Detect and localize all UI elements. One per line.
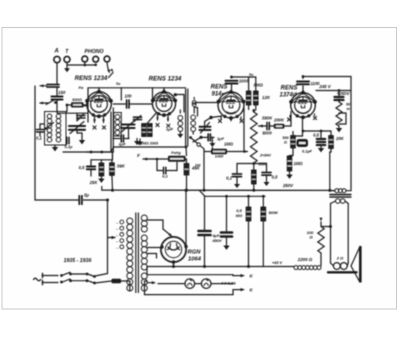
tube1 plate wires [111,108,113,152]
svg-text:5μ: 5μ [84,193,89,198]
svg-text:0,1μ: 0,1μ [65,144,74,149]
IF damping coil [192,98,196,114]
svg-text:36K: 36K [117,164,126,169]
resistor 25K [89,160,105,185]
label 2200 [297,257,313,262]
svg-text:+65 V: +65 V [272,261,282,265]
capacitor 5u bus [79,193,107,205]
cathode resistor 1/2Mn [142,124,147,137]
padding capacitor 1uF [113,135,129,147]
capacitor 0,1 det [226,164,254,189]
dial lamp 2 [201,279,211,289]
label +250V [337,91,351,96]
resistor 12K a [246,91,251,105]
oscillator coil box [114,113,122,137]
antenna terminal A [53,49,60,63]
wire tube3 right [243,108,245,152]
bus corner down [107,200,109,274]
svg-text:—: — [115,222,119,225]
tube4 top cap [297,77,320,93]
svg-text:A: A [53,49,58,55]
svg-text:100: 100 [125,94,133,99]
svg-text:450V: 450V [211,238,222,243]
label 1uF tube2 [166,127,174,132]
choke 2200 [294,253,321,270]
speaker wire right [347,204,349,264]
resistor 50K det [252,170,257,190]
volume box to pot wire [213,151,248,153]
capacitor 0,1uF block [297,139,313,154]
svg-text:1μF: 1μF [166,127,174,132]
svg-text:0,1: 0,1 [226,176,232,181]
svg-text:500Ω: 500Ω [72,97,83,102]
earth terminal T [64,49,70,63]
resistor 12K b [254,91,259,105]
ground IF [177,132,183,139]
IF primary coil [178,110,183,132]
tuning capacitor [122,121,135,139]
svg-text:1μF: 1μF [217,136,225,141]
label 100 [307,230,314,240]
svg-text:20K: 20K [335,136,345,141]
resistor 1Mn out [286,156,303,179]
output transformer secondary [331,199,349,204]
mains wire bottom [42,279,112,284]
bottom bus left [35,199,79,201]
ground tube2 cath [137,139,143,146]
label RGN 1064 [188,250,202,263]
output transformer primary [330,189,351,193]
pot wiper lower [244,150,248,153]
label RENS 1234 first [75,68,114,82]
tube4 cathode wire [303,117,332,136]
tube3 heater pins [218,117,243,123]
label 250V [282,183,294,188]
svg-text:2 Ω: 2 Ω [336,256,344,261]
wire HT to rectifier [147,220,172,237]
cathode resistor 200 [148,124,153,137]
svg-text:2200 Ω: 2200 Ω [297,257,313,262]
wire from A [56,63,58,84]
svg-text:RENS 1234: RENS 1234 [149,76,182,83]
wire grid rail tube3 [232,77,256,91]
ground below antenna coil [52,145,58,151]
tube4 heater pins [287,114,316,121]
label 2=84V [259,154,271,158]
heater tap K1 [233,274,254,279]
svg-text:RGN: RGN [188,250,202,256]
resistor 500 tube4 [282,132,302,149]
potentiometer 350K [251,111,274,164]
wire 12K to pot [249,105,256,112]
label RENS 914 [211,85,228,98]
switch phono 2 [193,136,208,142]
tube2 grid stub [162,88,165,93]
wire box left [204,149,211,190]
svg-text:—: — [115,241,119,244]
tube1 grid stub [98,88,100,92]
field coil 100 [318,218,332,253]
coupling capacitor 0,1 [37,124,45,136]
IF can core [186,89,188,146]
svg-text:—: — [115,247,119,250]
tube3 grid cap [226,73,254,91]
labels 1/2Mn 200 [137,142,158,146]
wire under tube1 box [58,112,88,114]
wire coil to grid resistor [67,104,88,111]
capacitor 150 [52,97,63,114]
svg-text:0,1: 0,1 [36,136,42,141]
label 12K [262,95,271,100]
label 60K [259,162,268,167]
svg-text:0,5: 0,5 [79,165,85,170]
capacitor 4uF a [199,196,211,266]
svg-text:0,1: 0,1 [162,174,168,179]
heater tap K2 [233,288,254,295]
sub bus [205,195,265,197]
label 1935-1936 [64,258,92,264]
dial lamp box [145,267,234,295]
bus junction [185,189,188,247]
band switch in coil box [45,123,54,130]
svg-text:500: 500 [282,136,289,140]
dial lamp 1 [185,279,195,289]
tube2 heater pins [156,115,170,128]
mains symbol [34,278,41,281]
tube1 heater pins [93,117,106,130]
svg-text:1000: 1000 [239,79,249,84]
svg-text:RENS 1234: RENS 1234 [75,75,108,82]
right rail [350,77,352,191]
svg-text:500K: 500K [269,210,280,215]
tube V5 RGN1064 [160,237,187,264]
B+ bus [102,187,330,197]
resistor 200K [273,118,285,129]
tube V4 RENS1374d [289,91,317,119]
svg-text:F: F [137,153,140,158]
svg-text:—: — [115,234,119,237]
mains wire top [42,272,108,278]
svg-text:1/4M: 1/4M [215,155,224,159]
mains plug prongs [42,273,44,284]
tube V3 RENS914 [217,90,246,120]
tube V1 RENS1234 [85,90,113,118]
svg-text:0,1μF: 0,1μF [302,150,313,154]
IF trimmer capacitor [200,116,223,133]
oscillator trimmer [134,116,142,122]
wire top to rail [303,76,351,78]
resistor 50m zig [336,100,346,126]
transformer core [136,213,139,293]
mains fuse [112,279,130,291]
IF secondary coil [191,115,196,132]
wire rect left pin [147,247,160,249]
wire 45K down [186,175,188,190]
svg-text:350K: 350K [262,116,273,121]
voltage selector contacts [115,220,124,250]
svg-text:2≈84V: 2≈84V [259,154,271,158]
wire 500 down [290,148,294,156]
capacitor 0,5 det [254,164,278,187]
tube V2 RENS1234 [151,90,177,117]
phono jack 2 [93,56,99,62]
resistor 36K [110,160,126,190]
label 4V03A [220,282,236,286]
phono jack 3 [104,56,110,62]
tube2 plate wire [174,93,184,112]
label 150 [58,90,66,95]
capacitor 0,5 tube1 [79,160,96,176]
label 3Mn [253,83,263,88]
capacitor 5000 [262,122,273,135]
svg-text:245 V: 245 V [318,84,332,89]
capacitor 4uF b [221,196,232,250]
output transformer core [330,195,351,197]
wire T to phono bus [67,62,97,66]
svg-text:200K: 200K [273,118,285,123]
wire rect left lower [147,254,156,259]
screen box tube1 [79,82,153,122]
resistor 20K [329,131,345,149]
svg-text:25K: 25K [89,180,99,185]
volume box lower loop [156,158,177,179]
transformer primary [127,218,133,291]
capacitor 0,5 out [313,131,325,152]
antenna trimmer capacitor [40,84,60,96]
speaker cone [351,246,362,283]
svg-text:4 V 0,3A: 4 V 0,3A [220,282,236,286]
wire to tube4 grid [284,112,291,127]
svg-text:250V: 250V [282,183,294,188]
svg-text:0,5: 0,5 [272,175,278,180]
wire 245V [316,90,351,92]
speaker wire left [330,204,332,264]
svg-text:Pw: Pw [79,86,84,90]
svg-text:Tw: Tw [116,82,121,86]
ground osc [134,139,140,146]
ground pad osc [79,133,85,144]
svg-text:0,5: 0,5 [313,133,319,138]
volume control box [168,156,186,162]
wire 20K to rail [330,149,331,191]
svg-text:—: — [115,228,119,231]
svg-text:1935 - 1936: 1935 - 1936 [64,258,92,264]
svg-text:200λ: 200λ [149,142,158,146]
antenna trimmer GL [77,114,85,121]
resistor 45K [184,164,201,176]
wire tube1 to bus [112,152,114,160]
wire box to 45K [186,159,187,164]
svg-text:1μF: 1μF [118,142,126,147]
svg-text:1MΩ: 1MΩ [224,142,234,147]
grid resistor 500 [71,97,84,108]
svg-text:RENS: RENS [211,85,228,91]
transformer secondary top [141,215,147,232]
svg-text:5000: 5000 [262,131,272,136]
phono jack 1 [82,56,88,62]
lamp box inner [158,283,233,285]
label 4uF 450V [211,233,222,243]
svg-text:1064: 1064 [188,257,202,263]
left bus wire [34,86,36,200]
svg-text:1M: 1M [195,163,201,168]
voice coil 2 [331,256,349,270]
label 1Mn pot [224,142,234,147]
label 245V [318,84,332,89]
pot wiper upper [259,124,267,127]
svg-text:1MΩ: 1MΩ [293,161,303,166]
wire rect bottom [172,262,175,266]
wave band switch [39,100,57,105]
electrolytic 50m [335,91,352,112]
resistor 500K [261,196,279,266]
wire phono to grid [107,62,110,74]
antenna coil primary [47,114,52,142]
svg-text:RENS: RENS [281,86,298,92]
label PHONO [84,49,103,55]
screen box tube2 [153,88,186,100]
cluster top wire [91,152,112,160]
label Fwhg [171,151,181,155]
oscillator coil [115,115,120,136]
voltage selector arrow [108,236,117,239]
transformer secondary bottom [141,273,147,291]
ground at T [64,65,70,72]
capacitor 100 [113,94,152,109]
label RENS 1234 second [149,76,182,83]
svg-text:12K: 12K [262,95,271,100]
ground 50m [336,126,342,132]
arrow F [137,153,168,161]
capacitor 0,1 coil [65,137,74,149]
capacitor 1uF det [208,134,224,152]
label 1M [195,163,201,168]
antenna tuning capacitor [69,113,85,133]
tube2 cathode wire [147,112,157,123]
svg-text:Ω: Ω [283,141,287,145]
antenna coil secondary [56,114,61,142]
label 0,1 antenna [36,136,42,141]
wire IF to tube3 [193,103,218,135]
heater bus 65V [147,261,294,268]
IF switch [189,136,204,149]
svg-text:150: 150 [58,90,66,95]
avc wire under tube1 [87,151,114,153]
svg-text:Fwhg: Fwhg [171,151,181,155]
wire zig bottom [253,163,255,170]
svg-text:MΩ: MΩ [236,213,243,218]
resistor 0,5Mn [236,196,251,266]
speaker frame [328,271,357,273]
screen feed line [63,147,187,156]
label RENS 1374d [279,86,297,99]
svg-text:PHONO: PHONO [84,49,103,55]
antenna coil box [45,112,67,146]
svg-text:3MΩ: 3MΩ [253,83,263,88]
volume pot box [211,149,227,159]
transformer secondary mid [141,235,147,270]
